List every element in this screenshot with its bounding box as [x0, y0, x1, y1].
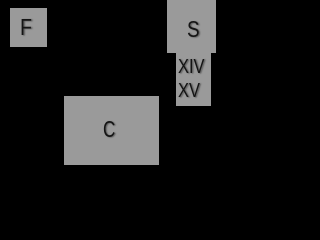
label XIV	[178, 57, 204, 77]
node C : central box (runs off bottom edge)	[64, 96, 159, 165]
label XV	[178, 81, 200, 101]
node XV : lower box	[176, 81, 211, 106]
label S	[187, 18, 200, 41]
node F : frontal box	[10, 8, 47, 47]
node XIV : stem column box	[176, 53, 211, 81]
label C	[103, 118, 115, 141]
node S : superior box (cut off at top edge)	[167, 0, 216, 53]
label F	[20, 16, 32, 39]
